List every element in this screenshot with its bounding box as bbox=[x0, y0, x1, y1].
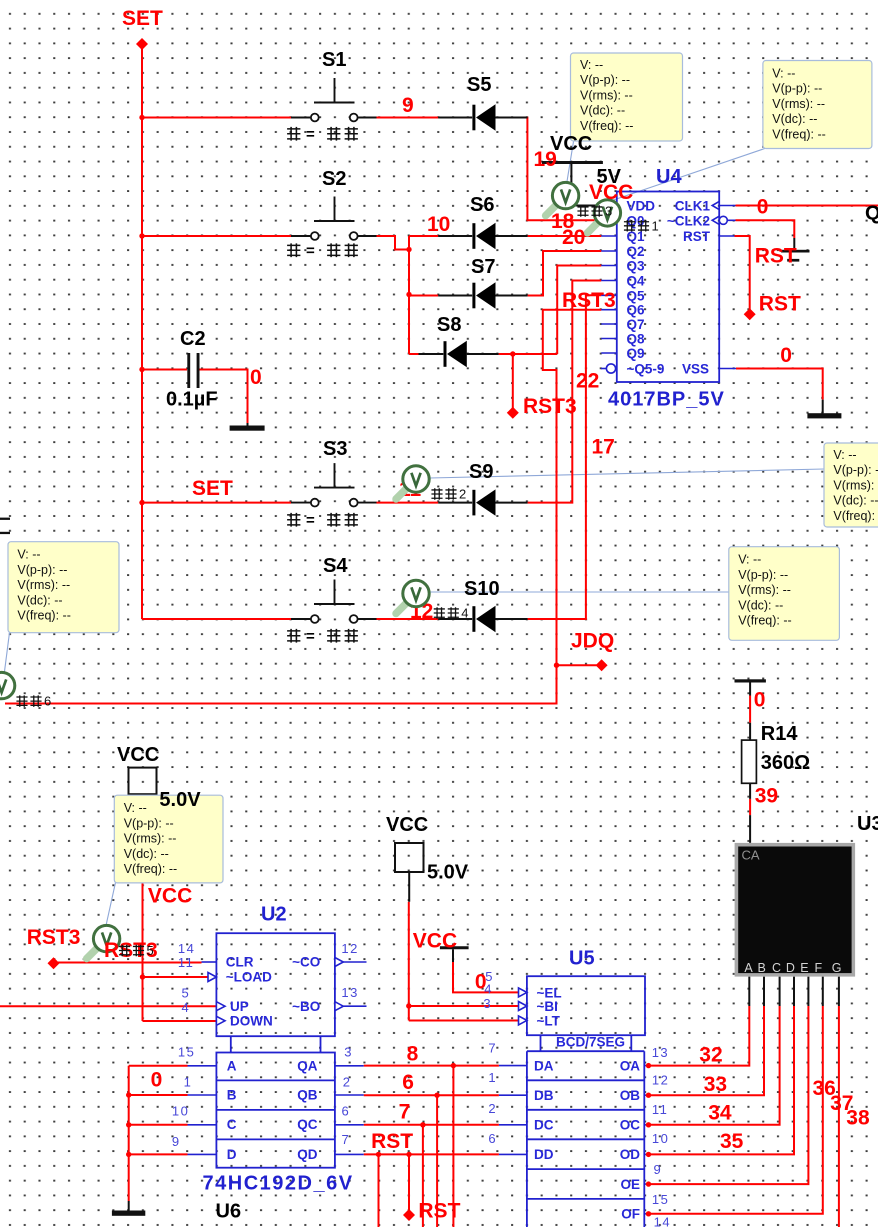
svg-text:S1: S1 bbox=[322, 49, 346, 71]
svg-text:OD: OD bbox=[620, 1147, 641, 1162]
svg-text:S7: S7 bbox=[471, 256, 495, 278]
svg-text:S9: S9 bbox=[469, 461, 493, 483]
svg-text:Q2: Q2 bbox=[627, 244, 645, 259]
svg-text:0: 0 bbox=[757, 196, 769, 219]
svg-text:SET: SET bbox=[192, 477, 233, 500]
svg-text:5: 5 bbox=[147, 943, 154, 958]
svg-text:F: F bbox=[814, 961, 822, 975]
svg-text:Q5: Q5 bbox=[627, 288, 646, 303]
svg-text:U6: U6 bbox=[216, 1201, 242, 1223]
svg-text:V(freq): --: V(freq): -- bbox=[833, 509, 878, 523]
svg-text:1: 1 bbox=[652, 219, 659, 234]
svg-text:7: 7 bbox=[342, 1132, 351, 1147]
svg-text:S4: S4 bbox=[323, 555, 348, 577]
svg-text:20: 20 bbox=[562, 226, 585, 249]
svg-text:Q9: Q9 bbox=[627, 346, 645, 361]
svg-text:11: 11 bbox=[178, 955, 195, 970]
svg-text:4: 4 bbox=[182, 1000, 191, 1015]
svg-text:DB: DB bbox=[534, 1088, 554, 1103]
svg-text:RST: RST bbox=[683, 229, 711, 244]
svg-text:Q4: Q4 bbox=[627, 274, 646, 289]
svg-text:OF: OF bbox=[621, 1207, 640, 1222]
svg-text:9: 9 bbox=[654, 1162, 663, 1177]
svg-text:19: 19 bbox=[534, 148, 557, 171]
svg-text:V(dc): --: V(dc): -- bbox=[738, 598, 783, 612]
svg-text:RST3: RST3 bbox=[523, 395, 577, 418]
svg-text:1: 1 bbox=[488, 1070, 497, 1085]
svg-text:JDQ: JDQ bbox=[571, 630, 614, 653]
svg-text:74HC192D_6V: 74HC192D_6V bbox=[203, 1173, 354, 1195]
svg-text:Q6: Q6 bbox=[627, 303, 646, 318]
svg-text:Q7: Q7 bbox=[627, 317, 645, 332]
svg-text:V(freq): --: V(freq): -- bbox=[124, 862, 177, 876]
svg-text:VDD: VDD bbox=[627, 199, 656, 214]
svg-text:32: 32 bbox=[699, 1044, 722, 1067]
svg-text:OA: OA bbox=[620, 1058, 641, 1073]
svg-text:V(freq): --: V(freq): -- bbox=[772, 127, 825, 141]
svg-text:2: 2 bbox=[459, 487, 466, 502]
svg-text:V(p-p): --: V(p-p): -- bbox=[580, 73, 630, 87]
svg-text:VSS: VSS bbox=[682, 362, 709, 377]
svg-text:V: --: V: -- bbox=[17, 548, 40, 562]
svg-text:V(rms): --: V(rms): -- bbox=[17, 578, 70, 592]
svg-text:17: 17 bbox=[592, 436, 615, 459]
svg-text:V: --: V: -- bbox=[738, 553, 761, 567]
svg-text:BCD/7SEG: BCD/7SEG bbox=[556, 1034, 625, 1049]
svg-text:V: --: V: -- bbox=[772, 67, 795, 81]
svg-text:3: 3 bbox=[483, 996, 492, 1011]
svg-text:360Ω: 360Ω bbox=[761, 752, 810, 774]
svg-text:2: 2 bbox=[343, 1074, 352, 1089]
svg-text:=: = bbox=[306, 512, 315, 529]
svg-text:RST3: RST3 bbox=[27, 926, 81, 949]
svg-text:9: 9 bbox=[402, 94, 414, 117]
svg-text:=: = bbox=[306, 243, 315, 260]
svg-text:V(rms): --: V(rms): -- bbox=[124, 832, 177, 846]
svg-text:V(p-p): --: V(p-p): -- bbox=[124, 816, 174, 830]
svg-text:D: D bbox=[786, 961, 795, 975]
svg-text:12: 12 bbox=[652, 1073, 669, 1088]
svg-text:V(rms): --: V(rms): -- bbox=[833, 478, 878, 492]
svg-text:C2: C2 bbox=[180, 328, 206, 350]
svg-text:5.0V: 5.0V bbox=[427, 862, 469, 884]
svg-text:A: A bbox=[744, 961, 753, 975]
svg-text:15: 15 bbox=[652, 1192, 669, 1207]
svg-text:RST: RST bbox=[371, 1130, 413, 1153]
svg-text:8: 8 bbox=[407, 1043, 419, 1066]
svg-text:13: 13 bbox=[652, 1045, 669, 1060]
svg-text:Q1: Q1 bbox=[627, 229, 646, 244]
svg-text:V(p-p): --: V(p-p): -- bbox=[772, 82, 822, 96]
svg-text:6: 6 bbox=[402, 1071, 414, 1094]
svg-text:2: 2 bbox=[488, 1101, 497, 1116]
svg-text:U4: U4 bbox=[656, 166, 682, 188]
svg-text:0: 0 bbox=[250, 366, 262, 389]
svg-text:S6: S6 bbox=[470, 194, 494, 216]
svg-text:V(freq): --: V(freq): -- bbox=[738, 614, 791, 628]
svg-text:34: 34 bbox=[708, 1102, 732, 1125]
svg-text:0: 0 bbox=[754, 689, 766, 712]
svg-text:CA: CA bbox=[742, 848, 760, 863]
svg-text:B: B bbox=[227, 1088, 237, 1103]
svg-text:38: 38 bbox=[846, 1107, 870, 1130]
svg-text:Q8: Q8 bbox=[627, 332, 646, 347]
svg-text:OB: OB bbox=[620, 1088, 641, 1103]
svg-text:11: 11 bbox=[652, 1102, 669, 1117]
svg-text:CLK1: CLK1 bbox=[675, 199, 711, 214]
svg-text:V(dc): --: V(dc): -- bbox=[833, 494, 878, 508]
svg-text:7: 7 bbox=[488, 1041, 497, 1056]
svg-text:V(rms): --: V(rms): -- bbox=[580, 88, 633, 102]
svg-text:VCC: VCC bbox=[386, 814, 428, 836]
svg-text:5: 5 bbox=[182, 985, 191, 1000]
svg-text:0.1µF: 0.1µF bbox=[166, 389, 218, 411]
svg-text:39: 39 bbox=[755, 785, 778, 808]
svg-text:D: D bbox=[227, 1147, 237, 1162]
svg-text:QD: QD bbox=[297, 1147, 318, 1162]
svg-text:7: 7 bbox=[399, 1101, 411, 1124]
svg-text:DA: DA bbox=[534, 1058, 554, 1073]
svg-text:V(p-p): --: V(p-p): -- bbox=[17, 563, 67, 577]
svg-text:V: --: V: -- bbox=[124, 801, 147, 815]
svg-text:DOWN: DOWN bbox=[230, 1013, 273, 1028]
svg-text:VCC: VCC bbox=[117, 744, 159, 766]
svg-text:V(dc): --: V(dc): -- bbox=[17, 593, 62, 607]
svg-text:OC: OC bbox=[620, 1118, 641, 1133]
svg-text:~Q5-9: ~Q5-9 bbox=[627, 362, 665, 377]
svg-text:14: 14 bbox=[178, 941, 195, 956]
svg-text:UP: UP bbox=[230, 999, 249, 1014]
svg-text:~BO: ~BO bbox=[292, 999, 320, 1014]
svg-text:DC: DC bbox=[534, 1118, 554, 1133]
svg-text:V(freq): --: V(freq): -- bbox=[580, 119, 633, 133]
svg-text:V(rms): --: V(rms): -- bbox=[772, 97, 825, 111]
svg-text:Q0: Q0 bbox=[865, 203, 878, 225]
svg-text:6: 6 bbox=[44, 694, 51, 709]
svg-text:VCC: VCC bbox=[148, 885, 192, 908]
svg-text:E: E bbox=[800, 961, 808, 975]
svg-text:13: 13 bbox=[341, 985, 358, 1000]
svg-text:VCC: VCC bbox=[413, 930, 457, 953]
svg-text:U2: U2 bbox=[261, 904, 287, 926]
svg-text:22: 22 bbox=[576, 370, 599, 393]
svg-text:RST: RST bbox=[755, 245, 797, 268]
svg-text:V(dc): --: V(dc): -- bbox=[124, 847, 169, 861]
svg-text:S2: S2 bbox=[322, 168, 346, 190]
svg-text:4017BP_5V: 4017BP_5V bbox=[608, 389, 725, 411]
svg-text:=: = bbox=[306, 628, 315, 645]
svg-text:V(freq): --: V(freq): -- bbox=[17, 609, 70, 623]
svg-text:QA: QA bbox=[297, 1058, 318, 1073]
svg-text:OE: OE bbox=[620, 1177, 640, 1192]
svg-text:6: 6 bbox=[488, 1131, 497, 1146]
svg-text:12: 12 bbox=[341, 941, 358, 956]
svg-text:1: 1 bbox=[184, 1074, 193, 1089]
svg-text:10: 10 bbox=[427, 213, 450, 236]
svg-text:S3: S3 bbox=[323, 438, 347, 460]
svg-text:V(p-p): --: V(p-p): -- bbox=[738, 568, 788, 582]
svg-text:14: 14 bbox=[654, 1215, 671, 1227]
svg-text:9: 9 bbox=[172, 1134, 181, 1149]
svg-text:A: A bbox=[227, 1058, 237, 1073]
svg-text:V(p-p): --: V(p-p): -- bbox=[833, 463, 878, 477]
svg-text:RST3: RST3 bbox=[562, 289, 616, 312]
svg-text:CLR: CLR bbox=[226, 955, 254, 970]
svg-text:~LOAD: ~LOAD bbox=[226, 970, 272, 985]
svg-text:6: 6 bbox=[342, 1103, 351, 1118]
svg-text:4: 4 bbox=[484, 982, 493, 997]
svg-text:~CO: ~CO bbox=[292, 955, 320, 970]
svg-text:V: --: V: -- bbox=[833, 448, 856, 462]
svg-text:B: B bbox=[758, 961, 766, 975]
svg-text:4: 4 bbox=[461, 606, 468, 621]
svg-text:R14: R14 bbox=[761, 723, 799, 745]
svg-text:~BI: ~BI bbox=[537, 999, 558, 1014]
svg-text:15: 15 bbox=[178, 1045, 195, 1060]
svg-text:QB: QB bbox=[297, 1088, 318, 1103]
svg-text:DD: DD bbox=[534, 1147, 554, 1162]
svg-text:RST: RST bbox=[418, 1200, 460, 1223]
svg-text:0: 0 bbox=[151, 1069, 163, 1092]
svg-text:10: 10 bbox=[652, 1131, 669, 1146]
svg-text:=: = bbox=[306, 126, 315, 143]
svg-text:G: G bbox=[832, 961, 842, 975]
svg-text:QC: QC bbox=[297, 1117, 318, 1132]
svg-text:V: --: V: -- bbox=[580, 58, 603, 72]
svg-text:33: 33 bbox=[704, 1073, 727, 1096]
svg-text:0: 0 bbox=[780, 344, 792, 367]
svg-text:SET: SET bbox=[122, 7, 163, 30]
svg-text:5.0V: 5.0V bbox=[159, 789, 201, 811]
svg-text:3: 3 bbox=[344, 1045, 353, 1060]
svg-text:U5: U5 bbox=[569, 948, 595, 970]
svg-text:V(dc): --: V(dc): -- bbox=[772, 112, 817, 126]
svg-text:S5: S5 bbox=[467, 74, 491, 96]
svg-text:S8: S8 bbox=[437, 314, 461, 336]
svg-text:V(dc): --: V(dc): -- bbox=[580, 104, 625, 118]
svg-text:3: 3 bbox=[605, 204, 612, 219]
svg-text:V(rms): --: V(rms): -- bbox=[738, 583, 791, 597]
svg-text:C: C bbox=[772, 961, 781, 975]
svg-text:~LT: ~LT bbox=[537, 1014, 561, 1029]
svg-text:~CLK2: ~CLK2 bbox=[667, 213, 710, 228]
svg-text:RST: RST bbox=[759, 293, 801, 316]
svg-text:Q3: Q3 bbox=[627, 259, 646, 274]
svg-text:10: 10 bbox=[172, 1104, 189, 1119]
svg-text:U3: U3 bbox=[857, 813, 878, 835]
svg-text:35: 35 bbox=[720, 1130, 744, 1153]
svg-text:C: C bbox=[227, 1117, 237, 1132]
svg-text:S10: S10 bbox=[464, 578, 500, 600]
